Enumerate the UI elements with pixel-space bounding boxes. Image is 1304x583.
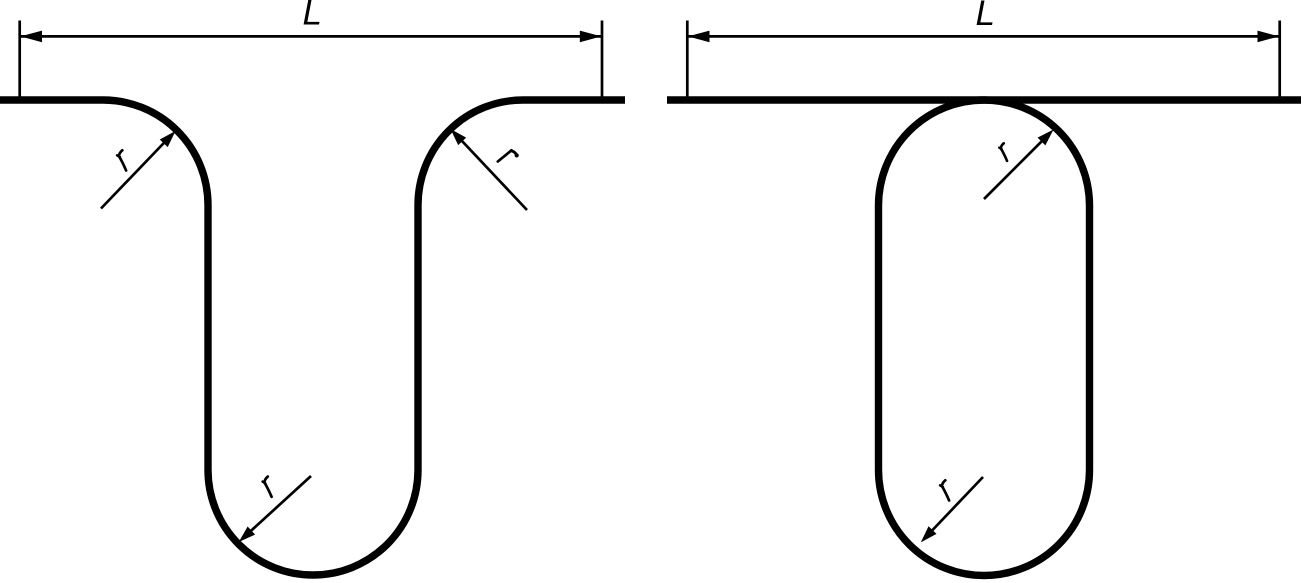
left figure: U-channel (trough) profile outline	[0, 100, 625, 575]
right figure: top radius leader arrow	[984, 133, 1050, 199]
right figure: stadium (obround) slot outline	[879, 100, 1090, 576]
right figure: dimension line L	[689, 35, 1279, 38]
svg-text:L: L	[303, 0, 322, 33]
left figure: right dimension arrowhead	[580, 31, 602, 43]
right figure: left dimension arrowhead	[688, 31, 710, 43]
left figure: right extension line	[601, 21, 604, 104]
left figure: left dimension arrowhead	[21, 31, 43, 43]
left figure: bottom radius leader arrow	[242, 476, 311, 539]
right figure: bottom radius leader arrow	[924, 477, 983, 539]
right figure: bottom radius label r	[940, 480, 949, 500]
right figure: top radius label r	[999, 143, 1007, 161]
left figure: dimension line L	[21, 35, 601, 38]
left figure: left extension line	[18, 21, 21, 104]
left figure: bottom radius label r	[263, 477, 272, 497]
right figure: left extension line	[686, 21, 689, 104]
svg-text:L: L	[976, 0, 995, 33]
right figure: right extension line	[1278, 21, 1281, 104]
left figure: top-left radius leader arrow	[101, 135, 172, 209]
right figure: top straight bar	[667, 96, 1301, 103]
left figure: top-left radius label r	[117, 150, 126, 170]
left figure: top-right radius leader arrow	[454, 133, 527, 211]
left figure: top-right radius label r	[498, 150, 519, 161]
right figure: right dimension arrowhead	[1258, 31, 1280, 43]
